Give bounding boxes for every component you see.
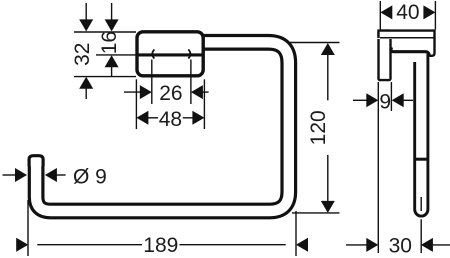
- dim 40: right arrow: [423, 5, 435, 19]
- dim 189: right arrow: [296, 238, 308, 252]
- dim 120: ext lines: [287, 42, 340, 44]
- arc mark left: [152, 49, 154, 58]
- svg-text:26: 26: [159, 82, 182, 105]
- hook top cap: [29, 156, 43, 166]
- dim 48: right arrow: [192, 111, 204, 125]
- dim 48: left arrow: [136, 111, 148, 125]
- dim 26: right arrow: [191, 85, 203, 99]
- dim 32: bottom arrow: [79, 77, 93, 89]
- dim 30: left arrow: [346, 244, 368, 246]
- side: hanging bar outline: [415, 54, 428, 217]
- svg-text:40: 40: [396, 1, 419, 24]
- svg-text:16: 16: [98, 31, 121, 54]
- svg-text:48: 48: [159, 108, 182, 131]
- dim 189: ext lines: [27, 200, 29, 256]
- dim 9 side: ext lines: [377, 82, 379, 253]
- dim 16: bottom arrow: [105, 55, 119, 67]
- svg-text:9: 9: [379, 90, 391, 113]
- svg-text:189: 189: [143, 234, 178, 257]
- side: wall plate: [379, 31, 391, 81]
- dim 120: top arrow: [321, 43, 335, 55]
- dim 40: left arrow: [380, 5, 392, 19]
- dim 26: ext lines: [151, 60, 153, 105]
- side: tube underside thick line with hook end: [391, 47, 429, 56]
- dim 40: ext lines: [379, 1, 381, 30]
- dim 120: bottom arrow: [321, 201, 335, 213]
- dim 16: ext line: [96, 54, 136, 56]
- side: bar center line: [420, 197, 422, 211]
- arc mark right: [188, 49, 190, 58]
- dim 26: left arrow: [124, 91, 142, 93]
- dim 32: ext lines: [74, 31, 136, 33]
- dim diameter 9: left arrow: [3, 174, 17, 176]
- side: arm underside line: [380, 37, 434, 39]
- ring tube interior (white): [36, 42, 289, 211]
- svg-text:30: 30: [389, 234, 412, 257]
- dim 32: top arrow: [85, 3, 87, 21]
- svg-text:Ø 9: Ø 9: [73, 165, 107, 188]
- plate mid line: [136, 53, 205, 56]
- svg-text:32: 32: [71, 43, 94, 66]
- svg-text:120: 120: [307, 110, 330, 145]
- side: arm outline: [379, 31, 435, 56]
- dim 16: top arrow: [111, 3, 113, 21]
- dim 48: ext lines: [135, 79, 137, 129]
- ring tube outline (black outer): [36, 42, 289, 211]
- dim diameter 9: right arrow: [45, 168, 57, 182]
- wall plate (front view rounded rect): [137, 32, 203, 76]
- dim 9 side: right arrow: [392, 93, 404, 107]
- dim 189: left arrow: [16, 238, 28, 252]
- dim 9 side: left arrow: [353, 99, 368, 101]
- side: bar joint crossbar: [415, 158, 429, 161]
- dim 30: right arrow: [421, 238, 433, 252]
- side: arm fill: [377, 29, 435, 57]
